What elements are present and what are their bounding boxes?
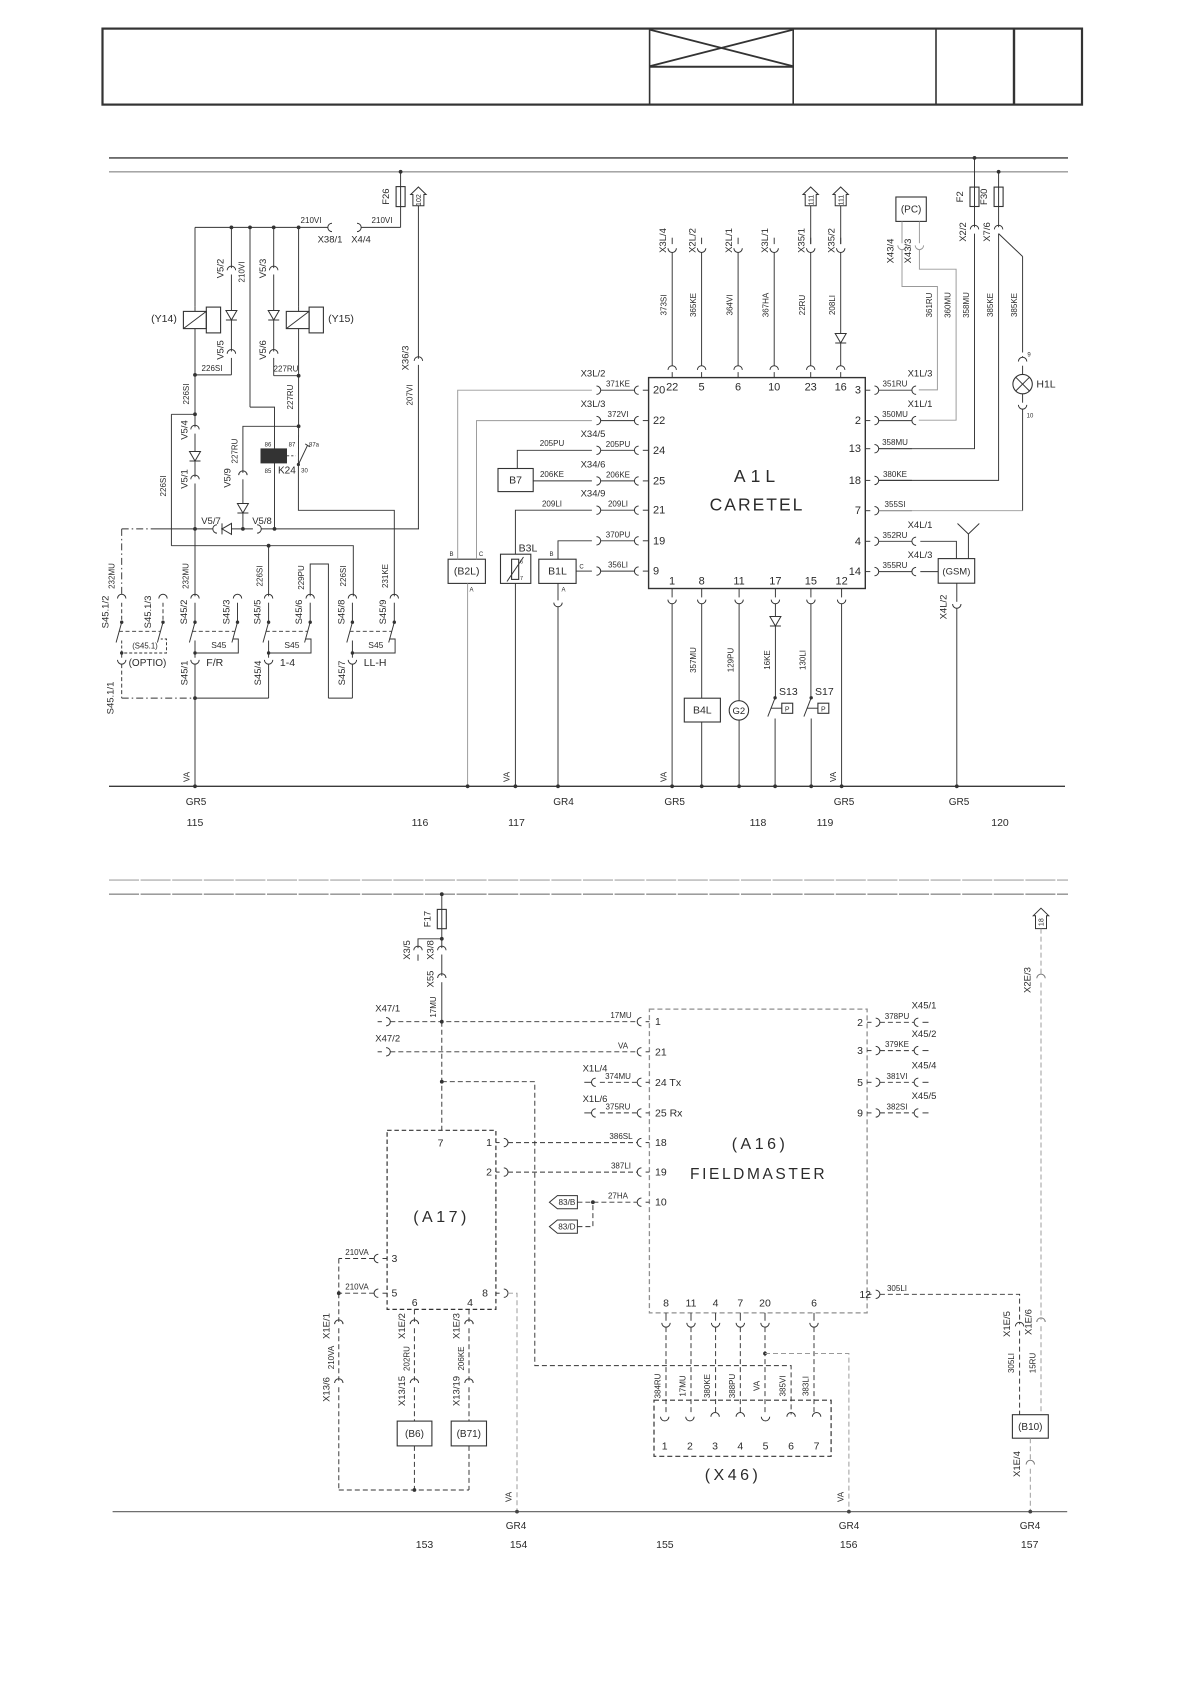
svg-text:16: 16 xyxy=(835,382,847,394)
ground rail GR5/GR4 (section 1) xyxy=(109,785,1065,787)
svg-text:229PU: 229PU xyxy=(297,565,306,590)
svg-text:18: 18 xyxy=(655,1137,667,1149)
svg-text:X2L/2: X2L/2 xyxy=(687,228,698,253)
svg-text:19: 19 xyxy=(653,535,665,547)
switch S45 1-4 xyxy=(264,594,272,598)
connector V5/2 xyxy=(227,266,235,270)
svg-text:C: C xyxy=(479,552,484,558)
svg-text:X34/6: X34/6 xyxy=(581,459,606,470)
connector V5/5 xyxy=(227,350,235,354)
svg-text:2: 2 xyxy=(855,415,861,427)
wire X35/2 column with diode xyxy=(840,253,842,334)
svg-text:15RU: 15RU xyxy=(1028,1353,1037,1374)
pin 8 A1L bottom xyxy=(701,589,703,598)
svg-text:V5/3: V5/3 xyxy=(258,259,269,279)
svg-text:210VI: 210VI xyxy=(301,216,322,225)
wire X1E/1 210VA X13/6 column xyxy=(338,1259,340,1294)
svg-text:23: 23 xyxy=(805,382,817,394)
svg-text:13: 13 xyxy=(849,443,861,455)
svg-text:B: B xyxy=(549,552,553,558)
svg-text:380KE: 380KE xyxy=(703,1374,712,1398)
svg-text:X3L/2: X3L/2 xyxy=(581,369,606,380)
junction dots on 210VI xyxy=(230,226,234,230)
svg-text:17MU: 17MU xyxy=(610,1011,632,1020)
svg-text:VA: VA xyxy=(829,771,838,782)
wire 17MU to A16 pin1 xyxy=(390,1021,637,1023)
pin 3 A1L right xyxy=(865,389,870,391)
wire V5/7-V5/8 bus xyxy=(122,528,152,530)
svg-text:231KE: 231KE xyxy=(381,564,390,588)
svg-text:7: 7 xyxy=(520,576,523,582)
svg-text:375RU: 375RU xyxy=(606,1102,631,1111)
connector V5/9 xyxy=(239,471,247,475)
svg-text:381VI: 381VI xyxy=(887,1072,908,1081)
wire GSM X4L/2 to ground xyxy=(956,583,958,602)
pin 23 A1L top xyxy=(810,372,812,378)
wire B3L to ground VA xyxy=(514,583,516,786)
pin 22 A1L left xyxy=(597,416,601,424)
wire X55 down to A17 pin7 xyxy=(441,1022,443,1131)
svg-text:X3/5: X3/5 xyxy=(402,940,413,960)
svg-text:(X46): (X46) xyxy=(705,1467,762,1484)
svg-text:X3L/4: X3L/4 xyxy=(658,228,669,253)
junction F17 on rail xyxy=(440,892,444,896)
svg-text:X2E/3: X2E/3 xyxy=(1023,967,1034,993)
svg-text:208LI: 208LI xyxy=(828,295,837,315)
svg-text:206KE: 206KE xyxy=(540,470,564,479)
svg-text:S13: S13 xyxy=(779,686,798,698)
svg-text:A: A xyxy=(469,588,473,594)
ECU A1L CARETEL xyxy=(649,378,866,589)
svg-text:X45/4: X45/4 xyxy=(912,1061,937,1072)
wire X4L/1 352RU to GSM xyxy=(920,541,956,558)
svg-text:210VI: 210VI xyxy=(372,216,393,225)
svg-text:X3/8: X3/8 xyxy=(426,940,437,960)
wire 102 down / X36/3 / 207VI xyxy=(417,206,419,359)
svg-text:6: 6 xyxy=(412,1297,418,1309)
svg-text:S45/9: S45/9 xyxy=(378,600,389,625)
svg-text:7: 7 xyxy=(814,1441,820,1453)
svg-text:120: 120 xyxy=(991,817,1009,829)
wire branch to X46 pin6 (385VI) xyxy=(442,1082,791,1415)
svg-text:8: 8 xyxy=(482,1288,488,1300)
svg-text:11: 11 xyxy=(733,576,744,588)
relay K24 contact xyxy=(287,455,296,457)
header title block xyxy=(103,29,1083,105)
dashed ground link B6/B71 xyxy=(339,1489,469,1491)
svg-text:X7/6: X7/6 xyxy=(982,222,993,242)
svg-text:X47/2: X47/2 xyxy=(375,1034,400,1045)
svg-text:S45.1/2: S45.1/2 xyxy=(101,596,112,629)
svg-text:X45/2: X45/2 xyxy=(912,1029,937,1040)
svg-text:4: 4 xyxy=(855,536,861,548)
svg-text:205PU: 205PU xyxy=(606,440,631,449)
pin 25 A1L left xyxy=(597,477,601,485)
svg-text:P: P xyxy=(785,706,790,713)
svg-text:17MU: 17MU xyxy=(429,996,438,1018)
svg-text:S45: S45 xyxy=(284,640,299,650)
pin 4 A1L right xyxy=(865,540,870,542)
diode V5 line xyxy=(190,452,201,462)
svg-text:C: C xyxy=(579,565,584,571)
svg-text:209LI: 209LI xyxy=(608,500,628,509)
svg-text:1: 1 xyxy=(669,576,675,588)
wire 83/D up to 27HA node xyxy=(577,1202,593,1226)
svg-text:1-4: 1-4 xyxy=(280,657,295,669)
wire 387LI to A16 pin19 xyxy=(508,1171,637,1173)
pin 1 A16 xyxy=(637,1018,641,1026)
wire X35/1 column xyxy=(810,253,812,366)
svg-text:115: 115 xyxy=(187,817,204,829)
wire S45/7 down xyxy=(351,664,353,698)
pin 6 A1L top xyxy=(737,372,739,378)
svg-text:361RU: 361RU xyxy=(925,292,934,317)
svg-text:18: 18 xyxy=(849,475,861,487)
wire pin15 130LI xyxy=(810,604,812,698)
svg-text:117: 117 xyxy=(508,817,525,829)
svg-text:V5/5: V5/5 xyxy=(216,340,227,360)
svg-text:385VI: 385VI xyxy=(779,1376,788,1397)
svg-text:210VA: 210VA xyxy=(327,1345,336,1369)
wire 227RU horizontal xyxy=(274,375,299,377)
svg-text:355SI: 355SI xyxy=(885,500,906,509)
pin 16 A1L top xyxy=(840,372,842,378)
svg-text:(Y14): (Y14) xyxy=(151,313,177,325)
svg-text:371KE: 371KE xyxy=(606,380,630,389)
svg-text:1: 1 xyxy=(655,1016,661,1028)
wire S45/4 down xyxy=(268,664,270,698)
svg-text:357MU: 357MU xyxy=(689,647,698,673)
pin 12 A1L bottom xyxy=(841,589,843,598)
svg-text:10: 10 xyxy=(1027,414,1034,420)
svg-text:226SI: 226SI xyxy=(255,566,264,587)
X46 pin 3 xyxy=(711,1413,719,1417)
wire to switch bank xyxy=(171,546,353,597)
svg-text:6: 6 xyxy=(520,560,523,566)
wire 385KE to pin18 xyxy=(879,234,999,481)
wire to F17 xyxy=(441,894,443,909)
svg-text:102: 102 xyxy=(416,194,423,206)
svg-text:F/R: F/R xyxy=(206,657,223,669)
svg-text:360MU: 360MU xyxy=(943,292,952,318)
pin 13 A1L right xyxy=(865,448,870,450)
svg-text:10: 10 xyxy=(768,382,780,394)
connector X7/6 xyxy=(998,207,1000,228)
offpage arrow 111 (X35/1) xyxy=(803,187,818,206)
lower dashed bus (S45) xyxy=(122,697,195,699)
wire B2L-C to pin22 (372VI) xyxy=(477,421,592,560)
switch S13 xyxy=(773,696,776,699)
svg-text:227RU: 227RU xyxy=(286,384,295,409)
svg-text:87a: 87a xyxy=(309,443,320,449)
svg-text:350MU: 350MU xyxy=(882,410,908,419)
switch S45 LL-H xyxy=(348,594,356,598)
connector X55 xyxy=(438,974,446,978)
svg-text:F26: F26 xyxy=(381,188,392,204)
svg-text:386SL: 386SL xyxy=(609,1132,633,1141)
svg-text:VA: VA xyxy=(182,771,191,782)
svg-text:X47/1: X47/1 xyxy=(375,1004,400,1015)
svg-text:4: 4 xyxy=(737,1441,743,1453)
svg-text:S45.1/1: S45.1/1 xyxy=(106,682,117,715)
connector X1L/4 / pin 24 Tx xyxy=(584,1081,591,1083)
svg-text:2: 2 xyxy=(486,1167,492,1179)
svg-text:(A17): (A17) xyxy=(413,1209,470,1226)
svg-text:364VI: 364VI xyxy=(725,295,734,316)
svg-text:6: 6 xyxy=(788,1441,794,1453)
wire B1L-B to pin19 (370PU) xyxy=(558,541,592,559)
wire rail30 to F2 xyxy=(974,158,976,187)
svg-text:S45/6: S45/6 xyxy=(294,600,305,625)
power rail 15 (top line 2, grey) xyxy=(109,171,1068,173)
svg-text:116: 116 xyxy=(412,817,429,829)
svg-text:X1E/2: X1E/2 xyxy=(397,1313,408,1339)
svg-text:X45/5: X45/5 xyxy=(912,1091,937,1102)
svg-text:GR4: GR4 xyxy=(839,1521,860,1532)
wire VA to A16 pin21 xyxy=(390,1051,637,1053)
svg-text:83/D: 83/D xyxy=(558,1222,575,1231)
offpage arrow 83/D xyxy=(549,1220,577,1233)
sensor (B71) xyxy=(451,1421,486,1446)
svg-text:21: 21 xyxy=(655,1046,667,1058)
svg-text:X13/6: X13/6 xyxy=(321,1377,332,1402)
wire B7 to pin25 (206KE) xyxy=(533,480,592,482)
wire rail15 to F30 xyxy=(998,172,1000,187)
pin 1 A1L bottom xyxy=(671,589,673,598)
wire X4L/3 355RU to GSM xyxy=(920,571,938,573)
svg-text:GR5: GR5 xyxy=(664,797,685,808)
svg-text:X36/3: X36/3 xyxy=(401,346,412,371)
svg-text:S45/3: S45/3 xyxy=(222,600,233,625)
svg-text:4: 4 xyxy=(467,1297,473,1309)
switch S45 F/R xyxy=(191,594,199,598)
svg-text:X4/4: X4/4 xyxy=(351,235,371,246)
svg-text:4: 4 xyxy=(713,1298,719,1310)
svg-text:X35/1: X35/1 xyxy=(797,228,808,253)
svg-text:385KE: 385KE xyxy=(1010,293,1019,317)
svg-text:387LI: 387LI xyxy=(611,1162,631,1171)
svg-text:10: 10 xyxy=(655,1197,667,1209)
diode V5/7 (left) xyxy=(222,523,232,534)
svg-text:F2: F2 xyxy=(955,191,966,202)
svg-text:S17: S17 xyxy=(815,686,834,698)
diode on X35/2 wire xyxy=(835,334,846,344)
svg-text:B: B xyxy=(449,552,453,558)
svg-text:X43/3: X43/3 xyxy=(903,239,914,264)
module (PC) xyxy=(896,197,926,221)
wire branch to H1L xyxy=(999,234,1023,257)
svg-text:(B2L): (B2L) xyxy=(454,566,480,578)
wire pin1 to ground VA xyxy=(671,604,673,787)
svg-text:A1L: A1L xyxy=(734,466,780,486)
svg-text:V5/6: V5/6 xyxy=(258,340,269,360)
svg-text:V5/8: V5/8 xyxy=(252,516,272,527)
svg-text:S45/4: S45/4 xyxy=(253,661,264,686)
svg-text:X45/1: X45/1 xyxy=(912,1001,937,1012)
wire V5/2 branch xyxy=(230,227,232,268)
header crossed cell xyxy=(650,66,794,68)
wire 360MU X43/3 to pin2 xyxy=(919,250,956,421)
sensor (B10) xyxy=(1012,1415,1048,1439)
svg-text:(A16): (A16) xyxy=(732,1136,789,1153)
svg-text:3: 3 xyxy=(855,385,861,397)
svg-text:(OPTIO): (OPTIO) xyxy=(129,658,167,669)
connector V5/7 xyxy=(213,525,217,533)
svg-text:(S45.1): (S45.1) xyxy=(132,642,158,651)
svg-text:B7: B7 xyxy=(509,475,522,487)
pin 18 A1L right xyxy=(865,479,870,481)
svg-text:24 Tx: 24 Tx xyxy=(655,1077,682,1089)
svg-text:351RU: 351RU xyxy=(883,380,908,389)
pin 11 A1L bottom xyxy=(738,589,740,598)
connector X38/1 xyxy=(328,223,332,231)
X46 pin5 VA branch to ground xyxy=(763,1352,767,1356)
svg-text:S45/5: S45/5 xyxy=(253,600,264,625)
svg-text:21: 21 xyxy=(653,505,665,517)
svg-text:156: 156 xyxy=(840,1539,858,1551)
svg-text:385KE: 385KE xyxy=(986,293,995,317)
offpage arrow 83/B xyxy=(549,1196,577,1209)
node junction on rail 15 xyxy=(399,170,403,174)
svg-text:155: 155 xyxy=(656,1539,674,1551)
svg-text:111: 111 xyxy=(838,195,845,206)
svg-text:378PU: 378PU xyxy=(885,1012,910,1021)
svg-text:VA: VA xyxy=(618,1041,629,1050)
wire B1L-C to pin9 (356LI) xyxy=(576,570,592,572)
svg-text:X35/2: X35/2 xyxy=(827,228,838,253)
svg-text:VA: VA xyxy=(503,771,512,782)
svg-text:GR5: GR5 xyxy=(949,797,970,808)
wire B7 to pin24 (205PU) xyxy=(517,450,592,468)
wire PC right to X43/3 xyxy=(918,221,920,243)
svg-text:X1E/4: X1E/4 xyxy=(1012,1451,1023,1477)
diode (Y15 suppressor) xyxy=(268,311,279,321)
X46 pin 6 xyxy=(787,1413,795,1417)
svg-text:227RU: 227RU xyxy=(230,438,239,463)
node split to left branch xyxy=(193,412,197,416)
svg-text:S45.1/3: S45.1/3 xyxy=(143,596,154,629)
diode V5/9 line xyxy=(237,504,248,514)
X46 pin 4 xyxy=(736,1413,744,1417)
connector X3/8 xyxy=(441,939,443,948)
X46 connector block xyxy=(654,1400,831,1456)
svg-text:20: 20 xyxy=(759,1298,771,1310)
wire V5/3 branch xyxy=(273,227,275,268)
wire 227RU down to K24 xyxy=(298,376,300,427)
relay K24 coil xyxy=(261,449,287,463)
svg-text:V5/1: V5/1 xyxy=(179,469,190,489)
svg-text:X4L/2: X4L/2 xyxy=(938,595,949,620)
svg-text:383LI: 383LI xyxy=(802,1376,811,1396)
svg-text:FIELDMASTER: FIELDMASTER xyxy=(690,1166,827,1183)
svg-text:8: 8 xyxy=(699,576,705,588)
wire F26 to 210VI node xyxy=(400,207,402,228)
svg-text:384RU: 384RU xyxy=(654,1373,663,1398)
connector X43/3 xyxy=(915,245,923,249)
wire corner to K24 coil xyxy=(250,407,275,449)
pin 22 A1L top xyxy=(671,372,673,378)
svg-text:X43/4: X43/4 xyxy=(885,239,896,264)
wire 355SI lamp to pin7 xyxy=(1022,409,1024,511)
wire X2E/3 column down to B10 xyxy=(1040,929,1042,977)
svg-text:(GSM): (GSM) xyxy=(942,567,970,578)
svg-text:356LI: 356LI xyxy=(608,561,628,570)
pin 19 A1L left xyxy=(597,537,601,545)
X46 pin 5 xyxy=(761,1417,769,1421)
wire 210VI down (middle) xyxy=(249,227,251,407)
svg-text:X38/1: X38/1 xyxy=(318,235,343,246)
wire S45/1 to ground xyxy=(194,664,196,698)
wire PC left to X43/4 xyxy=(901,221,903,243)
svg-text:X2/2: X2/2 xyxy=(958,222,969,242)
svg-text:X34/9: X34/9 xyxy=(581,489,606,500)
svg-text:226SI: 226SI xyxy=(339,566,348,587)
antenna xyxy=(967,534,969,559)
connector X3/5 stub xyxy=(418,939,442,948)
svg-text:129PU: 129PU xyxy=(727,648,736,673)
svg-text:19: 19 xyxy=(655,1167,667,1179)
pin 5 A1L top xyxy=(701,372,703,378)
svg-text:27HA: 27HA xyxy=(608,1192,629,1201)
svg-text:A: A xyxy=(561,588,565,594)
svg-text:305LI: 305LI xyxy=(887,1284,907,1293)
pin 10 A1L top xyxy=(773,372,775,378)
svg-text:B4L: B4L xyxy=(693,705,712,717)
svg-text:V5/7: V5/7 xyxy=(201,516,221,527)
svg-text:12: 12 xyxy=(835,576,847,588)
wire B10 X1E/4 to ground xyxy=(1029,1438,1031,1462)
svg-text:X13/15: X13/15 xyxy=(397,1376,408,1406)
svg-text:232MU: 232MU xyxy=(182,563,191,589)
module (A17) xyxy=(387,1130,496,1309)
wire B2L-A to ground xyxy=(467,583,469,786)
pin 21 A16 xyxy=(637,1048,641,1056)
svg-text:(PC): (PC) xyxy=(901,205,922,216)
svg-text:GR5: GR5 xyxy=(186,797,207,808)
wire 226SI down xyxy=(194,375,196,414)
svg-text:K24: K24 xyxy=(278,466,296,477)
svg-text:232MU: 232MU xyxy=(108,563,117,589)
svg-text:H1L: H1L xyxy=(1036,379,1055,391)
wire 358MU to pin13 xyxy=(879,234,975,449)
svg-text:6: 6 xyxy=(811,1298,817,1310)
wire B2L-B to pin20 (371KE) xyxy=(458,390,592,559)
svg-text:V5/9: V5/9 xyxy=(222,468,233,488)
svg-text:X1E/6: X1E/6 xyxy=(1024,1309,1035,1335)
svg-text:6: 6 xyxy=(735,382,741,394)
pin 15 A1L bottom xyxy=(810,589,812,598)
svg-text:12: 12 xyxy=(859,1289,871,1301)
svg-text:22: 22 xyxy=(666,382,678,394)
switch S45.1 (OPTIO) xyxy=(121,529,123,596)
svg-text:202RU: 202RU xyxy=(403,1346,412,1371)
wire 210VI down to Y14 xyxy=(194,227,196,307)
svg-text:V5/2: V5/2 xyxy=(216,259,227,279)
svg-text:GR5: GR5 xyxy=(834,797,855,808)
wire 209LI from B3L to pin21 xyxy=(515,510,592,554)
svg-text:X13/19: X13/19 xyxy=(452,1376,463,1406)
X46 pin 1 xyxy=(661,1417,669,1421)
svg-text:X1E/3: X1E/3 xyxy=(452,1313,463,1339)
offpage arrow 102 xyxy=(411,187,426,206)
wire joining 229PU and S45/7 xyxy=(328,697,352,699)
svg-text:1: 1 xyxy=(662,1441,668,1453)
svg-text:GR4: GR4 xyxy=(1020,1521,1041,1532)
svg-text:7: 7 xyxy=(737,1298,743,1310)
svg-text:226SI: 226SI xyxy=(202,364,223,373)
svg-text:379KE: 379KE xyxy=(885,1040,909,1049)
pin 14 A1L right xyxy=(865,571,870,573)
